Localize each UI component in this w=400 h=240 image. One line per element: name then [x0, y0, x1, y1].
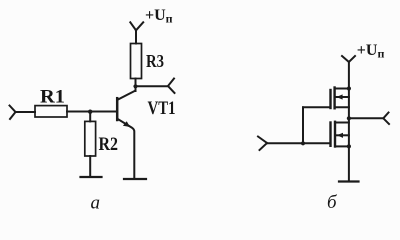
node gate junction [301, 141, 305, 145]
terminal output b [383, 113, 389, 125]
terminal +Up a [130, 22, 143, 30]
resistor R2 [85, 121, 96, 156]
transistor VT2 drain stub [335, 88, 349, 90]
transistor VT1 collector lead [118, 91, 136, 100]
wire node to R2 [89, 112, 91, 122]
wire R1 to base [67, 111, 117, 113]
arrowhead VT3 substrate [337, 133, 343, 138]
svg-text:R3: R3 [146, 51, 164, 71]
wire supply rail b [348, 62, 350, 182]
transistor VT2 source stub [335, 106, 349, 108]
wire R2 to ground [89, 156, 91, 177]
wire input b to gates [267, 142, 330, 144]
ground under emitter [124, 178, 146, 180]
ground b [339, 180, 359, 182]
wire output b [349, 117, 383, 119]
wire gate connect top MOSFET [303, 106, 329, 108]
arrowhead emitter [123, 121, 130, 127]
transistor VT2 channel bar [333, 88, 335, 109]
transistor VT1 base bar [116, 98, 119, 120]
wire input to R1 [16, 111, 36, 113]
svg-text:R2: R2 [99, 134, 119, 155]
transistor VT3 channel bar [334, 122, 336, 147]
transistor VT2 gate bar [329, 90, 331, 108]
node output junction b [347, 116, 351, 120]
transistor VT3 drain stub [335, 122, 349, 124]
transistor VT2 substrate stub [335, 96, 349, 98]
resistor R1 [35, 106, 67, 117]
ground under R2 [81, 176, 102, 178]
wire collector rail [135, 79, 137, 92]
svg-text:б: б [327, 192, 338, 213]
transistor VT1 emitter lead [118, 119, 135, 179]
node collector/output junction [133, 84, 137, 88]
wire R3 to supply [135, 30, 137, 43]
wire gate rail up [302, 107, 304, 143]
terminal +Up b [342, 56, 355, 62]
transistor VT3 gate bar [329, 123, 331, 146]
terminal input b [258, 137, 267, 151]
node drain junction top [347, 86, 351, 90]
node junction base/R2 [88, 110, 92, 114]
svg-text:VT1: VT1 [148, 98, 176, 119]
terminal input a [10, 106, 16, 120]
arrowhead VT2 substrate [336, 94, 342, 99]
svg-text:а: а [91, 193, 101, 214]
transistor VT3 substrate stub [335, 134, 349, 136]
svg-text:R1: R1 [40, 87, 65, 108]
terminal output a [168, 79, 175, 94]
wire output a [136, 85, 169, 87]
node source junction bottom [347, 144, 351, 148]
resistor R3 [131, 44, 142, 79]
transistor VT3 source stub [335, 145, 349, 147]
